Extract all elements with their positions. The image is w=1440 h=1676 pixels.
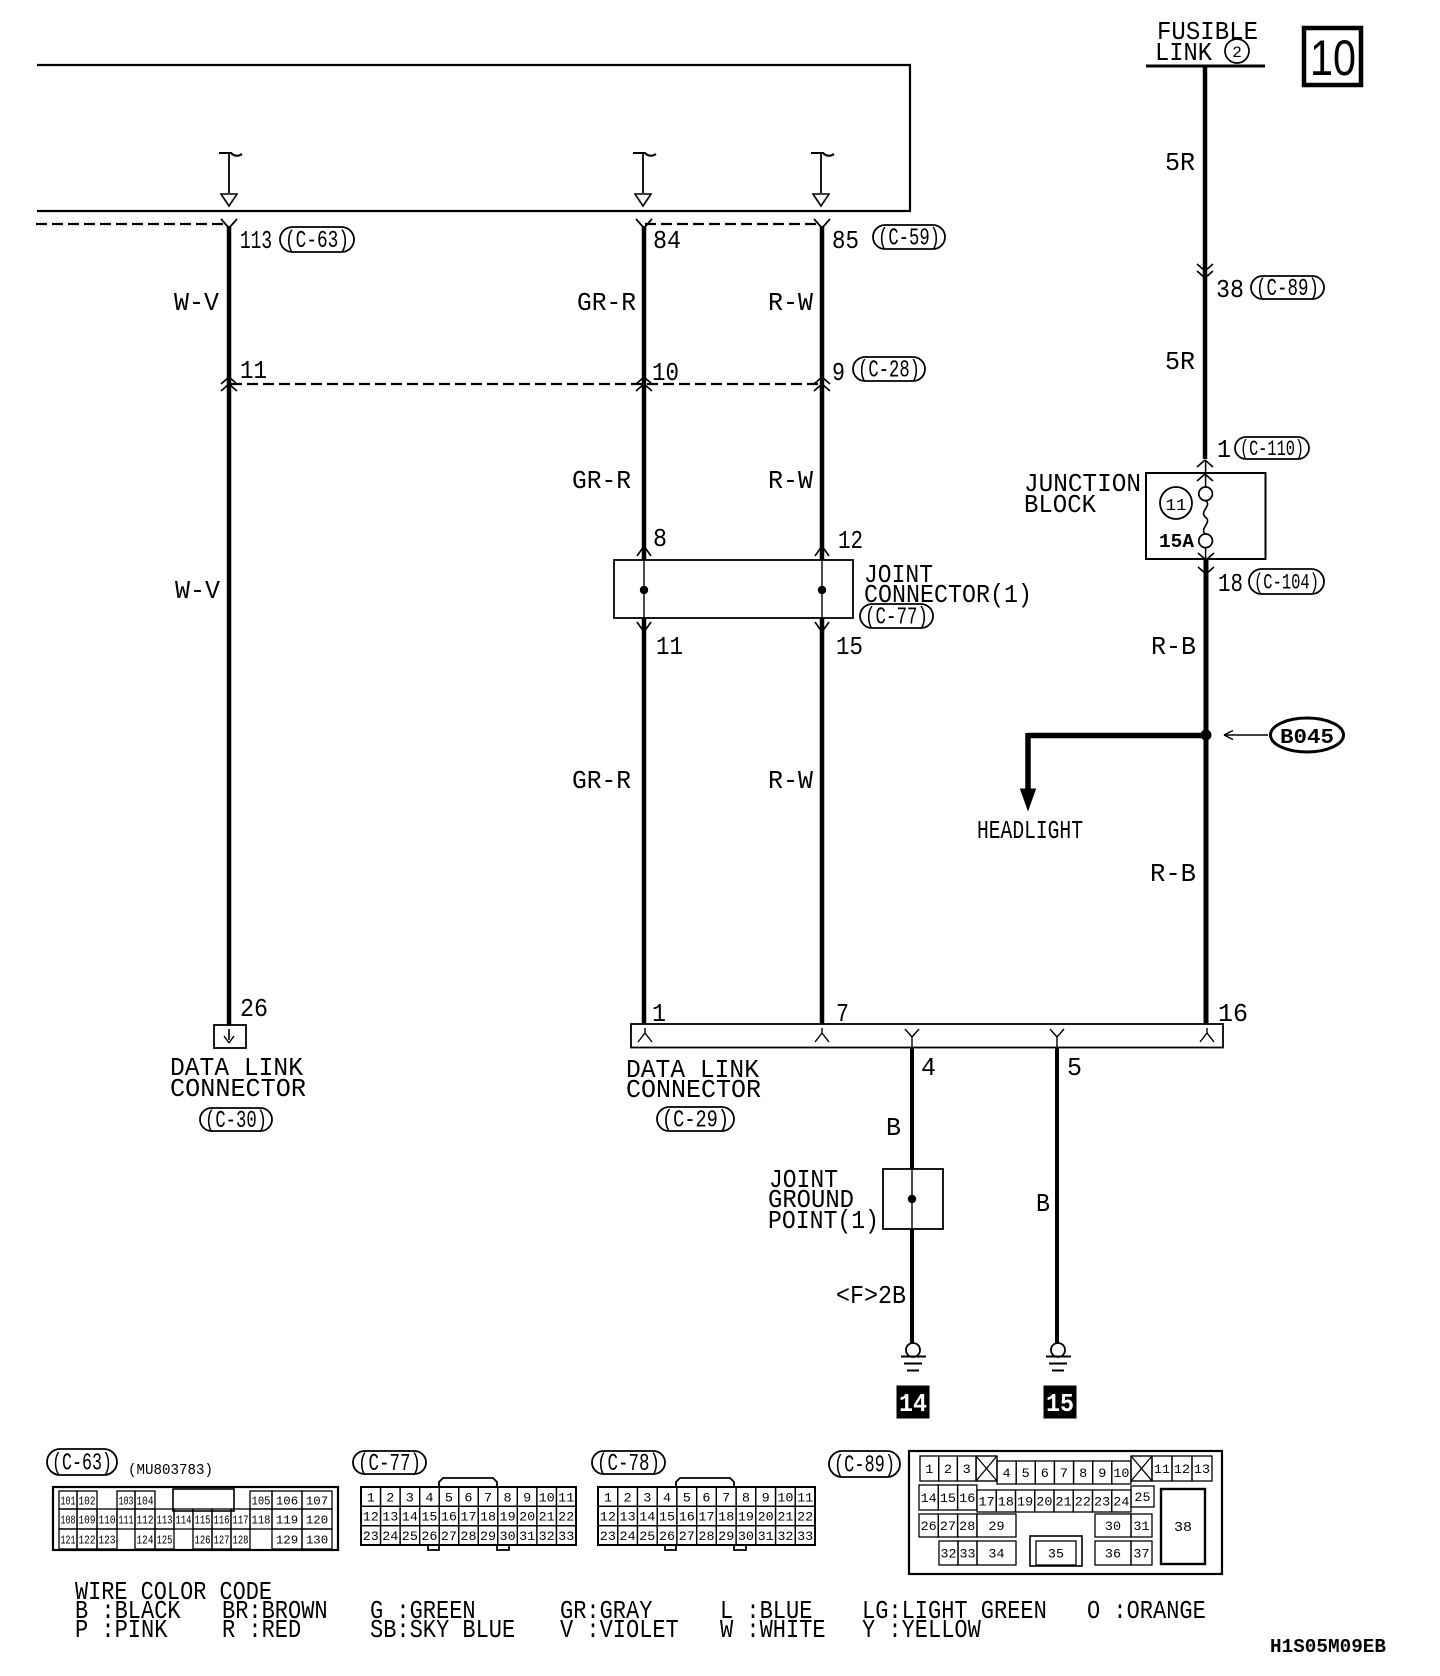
svg-text:19: 19	[738, 1510, 754, 1525]
svg-text:113: 113	[157, 1513, 173, 1527]
dashed harness line C-28	[231, 383, 820, 385]
pin 7 label	[836, 999, 849, 1029]
svg-text:109: 109	[79, 1513, 96, 1527]
svg-text:16: 16	[679, 1510, 695, 1525]
headlight branch wire	[1021, 733, 1207, 810]
svg-text:<F>2B: <F>2B	[836, 1281, 906, 1311]
svg-text:14: 14	[921, 1491, 937, 1506]
svg-text:116: 116	[214, 1513, 230, 1527]
label CONNECTOR(1)	[864, 580, 1032, 610]
svg-text:20: 20	[1036, 1495, 1052, 1510]
arrow into wire W-V	[219, 153, 242, 206]
svg-text:GR-R: GR-R	[572, 766, 631, 796]
label POINT(1)	[768, 1206, 879, 1236]
svg-text:22: 22	[797, 1510, 813, 1525]
svg-text:10: 10	[1113, 1466, 1129, 1481]
ground symbol 14	[901, 1343, 926, 1371]
svg-text:(C-89): (C-89)	[1256, 276, 1319, 303]
svg-text:O :ORANGE: O :ORANGE	[1087, 1596, 1206, 1626]
svg-text:34: 34	[988, 1547, 1004, 1562]
wire B from pin 4	[910, 1047, 914, 1169]
svg-text:37: 37	[1133, 1547, 1149, 1562]
svg-text:(C-63): (C-63)	[52, 1451, 112, 1478]
svg-text:(MU803783): (MU803783)	[128, 1462, 213, 1479]
label MU803783	[128, 1462, 213, 1479]
svg-text:GR-R: GR-R	[572, 466, 631, 496]
svg-text:117: 117	[233, 1513, 249, 1527]
wire gauge label (F)2B	[836, 1281, 906, 1311]
connector tag C-77 (joint connector)	[860, 604, 933, 632]
wire color label B (pin 5)	[1036, 1189, 1050, 1219]
svg-text:R-W: R-W	[768, 466, 813, 496]
svg-text:3: 3	[963, 1462, 971, 1477]
svg-text:B: B	[886, 1113, 901, 1143]
svg-text:26: 26	[240, 994, 268, 1024]
joint connector exit mark pin 15	[815, 622, 829, 632]
svg-text:8: 8	[1079, 1466, 1087, 1481]
svg-text:26: 26	[921, 1519, 937, 1534]
ground reference tag 15	[1044, 1386, 1076, 1419]
arrow into wire GR-R	[633, 153, 656, 206]
svg-text:8: 8	[504, 1490, 512, 1505]
svg-text:122: 122	[79, 1533, 96, 1547]
svg-text:113: 113	[240, 226, 272, 256]
svg-text:31: 31	[758, 1529, 774, 1544]
connector tag C-59	[873, 225, 945, 253]
svg-text:4: 4	[663, 1490, 671, 1505]
wire color label W-V (lower)	[175, 576, 220, 606]
connector tag C-30	[200, 1108, 272, 1135]
svg-text:10: 10	[1310, 30, 1356, 86]
connector tag C-104	[1249, 569, 1324, 596]
svg-text:5: 5	[683, 1490, 691, 1505]
svg-text:10: 10	[777, 1490, 793, 1505]
connector mark at pin 9 (double chevron up)	[814, 377, 830, 391]
svg-text:GR-R: GR-R	[577, 288, 636, 318]
svg-text:R :RED: R :RED	[222, 1615, 301, 1645]
svg-text:102: 102	[79, 1494, 96, 1508]
svg-text:Y :YELLOW: Y :YELLOW	[862, 1615, 981, 1645]
svg-text:21: 21	[1056, 1495, 1072, 1510]
svg-text:126: 126	[195, 1533, 211, 1547]
svg-text:W-V: W-V	[175, 576, 220, 606]
fusible link bus bar	[1146, 65, 1265, 68]
svg-text:13: 13	[620, 1510, 636, 1525]
svg-text:127: 127	[214, 1533, 230, 1547]
wire color label W-V (upper)	[174, 288, 219, 318]
svg-text:18: 18	[998, 1495, 1014, 1510]
connector tag C-28	[853, 357, 925, 385]
label BLOCK	[1024, 490, 1096, 520]
page number 10 box	[1304, 28, 1361, 86]
svg-text:31: 31	[519, 1529, 535, 1544]
wire color label R-W (upper)	[768, 288, 813, 318]
wire color label GR-R (lower)	[572, 766, 631, 796]
wire label 5R (upper)	[1165, 148, 1195, 178]
svg-text:(C-110): (C-110)	[1240, 437, 1304, 462]
label CONNECTOR (C-30)	[170, 1074, 306, 1104]
svg-text:26: 26	[659, 1529, 675, 1544]
svg-text:15: 15	[836, 632, 863, 662]
pin 4 label	[921, 1053, 936, 1083]
svg-text:17: 17	[979, 1495, 995, 1510]
svg-text:3: 3	[643, 1490, 651, 1505]
svg-text:12: 12	[363, 1510, 379, 1525]
joint ground point box	[883, 1169, 943, 1229]
joint connector (1) box	[614, 560, 853, 618]
svg-text:29: 29	[718, 1529, 734, 1544]
junction block circled 11	[1160, 487, 1192, 519]
svg-text:15: 15	[421, 1510, 437, 1525]
wire color label R-W (middle)	[768, 466, 813, 496]
svg-text:15: 15	[1046, 1389, 1074, 1419]
svg-text:27: 27	[679, 1529, 695, 1544]
svg-text:CONNECTOR: CONNECTOR	[626, 1075, 761, 1105]
pin 10 label	[652, 358, 679, 388]
wire GR-R upper segment	[642, 226, 647, 560]
svg-text:14: 14	[899, 1389, 927, 1419]
connector tag C-89 (inline)	[1251, 276, 1324, 303]
svg-text:19: 19	[1017, 1495, 1033, 1510]
svg-text:B: B	[1036, 1189, 1050, 1219]
svg-text:20: 20	[758, 1510, 774, 1525]
drawing number H1S05M09EB	[1270, 1636, 1386, 1658]
svg-text:112: 112	[137, 1513, 154, 1527]
svg-text:1: 1	[604, 1490, 612, 1505]
svg-text:5: 5	[1067, 1053, 1082, 1083]
svg-text:(C-77): (C-77)	[865, 605, 928, 632]
svg-text:11: 11	[797, 1490, 813, 1505]
svg-text:16: 16	[441, 1510, 457, 1525]
svg-text:33: 33	[797, 1529, 813, 1544]
splice node B045 junction dot	[1201, 730, 1212, 741]
svg-text:7: 7	[1060, 1466, 1068, 1481]
svg-text:25: 25	[639, 1529, 655, 1544]
svg-text:13: 13	[382, 1510, 398, 1525]
svg-text:32: 32	[539, 1529, 555, 1544]
svg-text:SB:SKY BLUE: SB:SKY BLUE	[370, 1615, 515, 1645]
svg-text:6: 6	[1041, 1466, 1049, 1481]
svg-text:103: 103	[119, 1494, 134, 1508]
svg-text:(C-78): (C-78)	[597, 1451, 660, 1478]
svg-text:18: 18	[480, 1510, 496, 1525]
svg-text:(C-59): (C-59)	[878, 226, 940, 253]
wire W-V vertical	[227, 226, 232, 1025]
joint connector exit mark pin 11	[637, 622, 651, 632]
connector mark at pin 113	[221, 219, 237, 228]
svg-text:18: 18	[1218, 569, 1243, 599]
svg-text:84: 84	[653, 226, 681, 256]
svg-text:B045: B045	[1280, 727, 1334, 750]
label JUNCTION	[1024, 469, 1141, 499]
svg-text:(C-29): (C-29)	[662, 1108, 729, 1135]
svg-text:P :PINK: P :PINK	[75, 1615, 168, 1645]
svg-text:H1S05M09EB: H1S05M09EB	[1270, 1636, 1386, 1658]
svg-text:BLOCK: BLOCK	[1024, 490, 1096, 520]
svg-text:5R: 5R	[1165, 148, 1195, 178]
svg-text:6: 6	[702, 1490, 710, 1505]
svg-text:7: 7	[484, 1490, 492, 1505]
svg-text:13: 13	[1194, 1462, 1210, 1477]
svg-text:15: 15	[659, 1510, 675, 1525]
pin 85 label	[832, 226, 859, 256]
svg-text:16: 16	[959, 1491, 975, 1506]
svg-text:38: 38	[1216, 275, 1244, 305]
svg-text:12: 12	[838, 526, 863, 556]
svg-text:3: 3	[406, 1490, 414, 1505]
label GROUND	[768, 1185, 854, 1215]
connector mark at pin 11 (double chevron up)	[221, 377, 237, 391]
connector mark at pin 10 (double chevron up)	[636, 377, 652, 391]
pin 16 label	[1218, 999, 1248, 1029]
svg-text:W :WHITE: W :WHITE	[720, 1615, 826, 1645]
svg-text:4: 4	[425, 1490, 433, 1505]
svg-text:36: 36	[1105, 1547, 1121, 1562]
wire 5R upper	[1203, 66, 1208, 459]
svg-text:114: 114	[176, 1513, 192, 1527]
svg-text:11: 11	[656, 632, 683, 662]
svg-text:11: 11	[1154, 1462, 1170, 1477]
svg-text:119: 119	[276, 1513, 298, 1527]
svg-text:120: 120	[306, 1513, 328, 1527]
svg-text:28: 28	[698, 1529, 714, 1544]
svg-text:15: 15	[940, 1491, 956, 1506]
svg-text:5: 5	[1022, 1466, 1030, 1481]
ground symbol 15	[1046, 1343, 1071, 1371]
label CONNECTOR (C-29)	[626, 1075, 761, 1105]
svg-text:21: 21	[777, 1510, 793, 1525]
svg-text:115: 115	[195, 1513, 211, 1527]
svg-text:14: 14	[639, 1510, 655, 1525]
pin 11 label	[240, 356, 267, 386]
svg-text:2: 2	[386, 1490, 394, 1505]
pin 1 label	[652, 999, 666, 1029]
svg-text:9: 9	[762, 1490, 770, 1505]
wire color label B (pin 4)	[886, 1113, 901, 1143]
svg-text:V :VIOLET: V :VIOLET	[560, 1615, 679, 1645]
pin 38 label	[1216, 275, 1244, 305]
pin 84 label	[653, 226, 681, 256]
svg-text:24: 24	[382, 1529, 398, 1544]
svg-text:35: 35	[1048, 1547, 1064, 1562]
svg-text:111: 111	[119, 1513, 134, 1527]
label LINK (2)	[1155, 38, 1249, 68]
svg-text:1: 1	[367, 1490, 375, 1505]
svg-text:8: 8	[742, 1490, 750, 1505]
svg-text:(C-77): (C-77)	[358, 1451, 421, 1478]
pin 9 label	[832, 358, 845, 388]
svg-text:106: 106	[276, 1494, 298, 1508]
wire color label R-W (lower)	[768, 766, 813, 796]
wire label R-B (upper)	[1151, 632, 1196, 662]
svg-text:12: 12	[600, 1510, 616, 1525]
svg-text:4: 4	[921, 1053, 936, 1083]
svg-text:9: 9	[832, 358, 845, 388]
connector mark at pin 84	[636, 219, 652, 228]
svg-text:10: 10	[539, 1490, 555, 1505]
svg-text:23: 23	[600, 1529, 616, 1544]
wire B from pin 5	[1055, 1047, 1059, 1344]
svg-text:29: 29	[988, 1519, 1004, 1534]
svg-text:(C-63): (C-63)	[285, 228, 349, 255]
svg-text:5: 5	[445, 1490, 453, 1505]
wire color code row 2	[75, 1615, 981, 1645]
svg-text:21: 21	[539, 1510, 555, 1525]
pin 12 label	[838, 526, 863, 556]
svg-text:LINK: LINK	[1155, 38, 1212, 68]
svg-text:2: 2	[1232, 44, 1242, 62]
svg-text:R-W: R-W	[768, 766, 813, 796]
connector C-78 pinout grid	[598, 1478, 815, 1550]
pin 8 label	[653, 524, 667, 554]
wire R-W lower segment	[820, 618, 825, 1024]
fuse 15A inside junction block	[1199, 460, 1213, 559]
pin 15 label (joint connector)	[836, 632, 863, 662]
connector C-63 pinout grid	[53, 1487, 338, 1550]
label JOINT (ground point)	[769, 1165, 838, 1195]
fuse rating label 15A	[1159, 531, 1195, 553]
svg-text:2: 2	[944, 1462, 952, 1477]
svg-text:85: 85	[832, 226, 859, 256]
svg-text:5R: 5R	[1165, 347, 1195, 377]
svg-text:14: 14	[402, 1510, 418, 1525]
svg-text:10: 10	[652, 358, 679, 388]
svg-text:22: 22	[1075, 1495, 1091, 1510]
svg-text:26: 26	[421, 1529, 437, 1544]
connector tag C-110	[1235, 437, 1309, 462]
svg-text:7: 7	[722, 1490, 730, 1505]
svg-text:29: 29	[480, 1529, 496, 1544]
junction block box	[1146, 473, 1266, 559]
svg-text:8: 8	[653, 524, 667, 554]
svg-text:108: 108	[61, 1513, 76, 1527]
legend title WIRE COLOR CODE	[75, 1577, 272, 1607]
svg-text:18: 18	[718, 1510, 734, 1525]
pointer arrow from B045 tag	[1224, 731, 1268, 740]
connector tag C-29	[657, 1107, 734, 1135]
svg-text:30: 30	[738, 1529, 754, 1544]
svg-text:R-W: R-W	[768, 288, 813, 318]
svg-text:11: 11	[1166, 497, 1187, 516]
wire color label GR-R (upper)	[577, 288, 636, 318]
svg-text:38: 38	[1174, 1520, 1192, 1536]
svg-text:1: 1	[925, 1462, 933, 1477]
pin 18 label	[1218, 569, 1243, 599]
svg-text:32: 32	[777, 1529, 793, 1544]
svg-text:123: 123	[99, 1533, 116, 1547]
svg-text:27: 27	[441, 1529, 457, 1544]
svg-text:R-B: R-B	[1151, 632, 1196, 662]
svg-text:33: 33	[558, 1529, 574, 1544]
svg-text:22: 22	[558, 1510, 574, 1525]
svg-text:R-B: R-B	[1150, 859, 1196, 889]
svg-text:1: 1	[1217, 435, 1231, 465]
svg-text:118: 118	[252, 1513, 271, 1527]
svg-text:30: 30	[1105, 1519, 1121, 1534]
svg-text:6: 6	[464, 1490, 472, 1505]
svg-text:9: 9	[1098, 1466, 1106, 1481]
svg-text:101: 101	[61, 1494, 76, 1508]
wire label 5R (lower)	[1165, 347, 1195, 377]
svg-text:20: 20	[519, 1510, 535, 1525]
wire GR-R lower segment	[642, 618, 647, 1024]
label DATA LINK (C-29)	[626, 1055, 759, 1085]
connector mark 38 C-89 (double chevron down)	[1197, 264, 1213, 278]
connector tag C-77 (pinout title)	[353, 1451, 426, 1478]
svg-text:130: 130	[306, 1533, 328, 1547]
data link connector C-29 body	[631, 1024, 1223, 1048]
svg-text:27: 27	[940, 1519, 956, 1534]
svg-text:(C-104): (C-104)	[1254, 571, 1319, 596]
pin 1 label (C-110)	[1217, 435, 1231, 465]
svg-text:9: 9	[523, 1490, 531, 1505]
svg-text:28: 28	[959, 1519, 975, 1534]
label FUSIBLE	[1157, 17, 1258, 47]
pin 11 label (joint connector)	[656, 632, 683, 662]
svg-text:125: 125	[157, 1533, 173, 1547]
svg-text:2: 2	[624, 1490, 632, 1505]
wire R-W upper segment	[820, 226, 825, 560]
svg-text:11: 11	[558, 1490, 574, 1505]
joint connector entry mark pin 12	[815, 546, 829, 556]
svg-text:28: 28	[460, 1529, 476, 1544]
svg-text:19: 19	[500, 1510, 516, 1525]
connector mark at pin 85	[814, 219, 830, 228]
svg-text:128: 128	[233, 1533, 249, 1547]
connector tag C-63	[280, 227, 354, 255]
svg-text:129: 129	[276, 1533, 298, 1547]
connector tag C-89 (pinout title)	[829, 1451, 900, 1480]
frame of upstream ECU box (open left)	[37, 65, 910, 211]
svg-text:12: 12	[1174, 1462, 1190, 1477]
svg-text:(C-89): (C-89)	[834, 1453, 895, 1480]
label DATA LINK (C-30)	[170, 1053, 303, 1083]
wire R-B vertical	[1204, 559, 1209, 1024]
svg-text:25: 25	[1134, 1490, 1150, 1505]
data link connector C-30 terminal box	[214, 1025, 246, 1048]
svg-text:24: 24	[620, 1529, 636, 1544]
wire color label GR-R (middle)	[572, 466, 631, 496]
wire color code row 1	[75, 1596, 1206, 1626]
svg-text:(C-30): (C-30)	[205, 1108, 267, 1135]
svg-text:121: 121	[61, 1533, 76, 1547]
svg-text:32: 32	[941, 1547, 957, 1562]
connector mark at C-104 (double chevron down)	[1198, 553, 1214, 574]
wire label R-B (lower)	[1150, 859, 1196, 889]
svg-text:HEADLIGHT: HEADLIGHT	[977, 816, 1083, 846]
connector C-77 pinout grid	[361, 1478, 576, 1550]
svg-text:15A: 15A	[1159, 531, 1195, 553]
svg-text:104: 104	[137, 1494, 154, 1508]
svg-text:CONNECTOR: CONNECTOR	[170, 1074, 306, 1104]
svg-text:105: 105	[252, 1494, 271, 1508]
svg-text:11: 11	[240, 356, 267, 386]
svg-text:124: 124	[137, 1533, 154, 1547]
svg-text:23: 23	[363, 1529, 379, 1544]
connector mark at C-110 (double chevron up)	[1197, 460, 1213, 481]
svg-text:33: 33	[960, 1547, 976, 1562]
svg-text:17: 17	[698, 1510, 714, 1525]
connector tag C-63 (pinout title)	[47, 1449, 117, 1478]
svg-text:25: 25	[402, 1529, 418, 1544]
svg-text:31: 31	[1133, 1519, 1149, 1534]
pin 26 label	[240, 994, 268, 1024]
svg-text:POINT(1): POINT(1)	[768, 1206, 879, 1236]
arrow into wire R-W	[811, 153, 834, 206]
svg-text:110: 110	[99, 1513, 116, 1527]
dashed harness line upper-left	[36, 223, 227, 225]
svg-text:W-V: W-V	[174, 288, 219, 318]
